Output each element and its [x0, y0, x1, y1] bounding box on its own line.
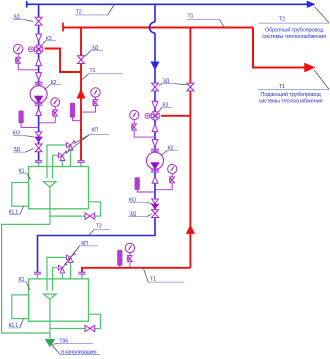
wire PI2 tap to pipe [39, 116, 56, 123]
wire K3a hot link (red) [45, 49, 81, 73]
wire PI1 tap to pipe [18, 63, 38, 70]
svg-text:Т2: Т2 [96, 224, 102, 230]
thermometer TI4 on K1b outlet header [118, 250, 123, 265]
label v kanalizaciyu [60, 350, 100, 356]
thermometer TI2 middle branch [135, 178, 140, 190]
wire T2 return main (blue, top) [27, 3, 308, 5]
stub boiler K1a outlet (green) [80, 162, 82, 167]
wire PI6 stem [129, 253, 131, 256]
wire riser2 drop (red) [189, 28, 191, 268]
cock of PI1 [16, 57, 21, 63]
flange boiler K1a outlet [77, 160, 84, 162]
label T96 [52, 338, 93, 354]
label K1.1b [9, 319, 24, 329]
module K1.1 a body [12, 183, 29, 207]
label ZD middle-bottom [129, 212, 152, 218]
pump K2b [147, 152, 164, 169]
wire boiler K1b outlet header (red) [82, 268, 190, 273]
cock of PI6 [127, 256, 132, 262]
safety valve KP2 a [58, 151, 67, 161]
manometer PI6 on K1b outlet header [125, 243, 134, 252]
check valve KO middle [152, 199, 159, 209]
wire PI3 stem [133, 120, 135, 124]
flange boiler K1a water inlet [35, 160, 42, 162]
flow arrow middle branch (down) [151, 62, 159, 70]
stub boiler K1b outlet (green) [81, 274, 83, 279]
reducer out of pump K2a (up) [36, 109, 42, 116]
svg-text:системы теплоснабжения: системы теплоснабжения [262, 34, 326, 40]
safety valve riser 2 b (green) [61, 273, 63, 280]
wire T1 exit elbow (red) [253, 28, 306, 68]
wire T2 collector to boiler K1b (blue) [38, 236, 156, 273]
wire TI4 stem [119, 265, 121, 267]
label ZD riser1 [85, 46, 103, 57]
wire left branch drop (blue) [38, 4, 40, 160]
svg-text:Т1: Т1 [187, 13, 193, 19]
3-way valve K3b with actuator [145, 112, 159, 120]
3-way valve K3a with actuator [29, 45, 43, 53]
boiler K1 a body [29, 167, 89, 209]
label KO left [13, 131, 34, 137]
wire middle branch drop (blue) [154, 33, 156, 236]
label KO middle [129, 197, 152, 203]
safety valve riser 1 b (green) [70, 263, 72, 280]
label K1b [18, 277, 30, 290]
svg-text:Т2: Т2 [279, 17, 285, 23]
stub into boiler K1a (green) [38, 162, 40, 167]
safety valve KP2 b [58, 263, 67, 273]
safety discharge pipe 1 b (green) [47, 257, 67, 290]
wire PI6 tap to pipe [129, 262, 131, 268]
label K2b [161, 145, 178, 155]
reducer out of pump K2b (up) [152, 176, 158, 183]
svg-text:Подающий трубопровод: Подающий трубопровод [260, 91, 321, 98]
svg-text:Обратный трубопровод: Обратный трубопровод [265, 26, 324, 33]
flange boiler K1b water inlet [34, 271, 41, 273]
blowdown loop a (green) [50, 202, 101, 216]
wire drain from K1a to sewer line (green) [2, 224, 50, 333]
safety discharge pipe 2 b (green) [53, 268, 59, 291]
manometer PI2 pump K2a discharge [51, 98, 60, 107]
reducer out of K3b (up) [152, 124, 158, 131]
boiler K1 b body [29, 279, 89, 321]
wire T1 supply main (red) [63, 27, 253, 29]
safety valve riser 2 a (green) [61, 160, 63, 167]
label K1a [19, 168, 31, 179]
wire manometer PI1 stem [17, 54, 19, 58]
svg-text:КП: КП [91, 128, 98, 134]
stub into boiler K1b (green) [37, 274, 39, 279]
wire PI3 tap to pipe [134, 130, 155, 137]
manometer PI3 middle branch [130, 110, 139, 119]
label ZD left-top [13, 15, 33, 22]
svg-text:Т1: Т1 [279, 84, 285, 90]
cock of PI5 [93, 100, 98, 106]
flow arrow riser1 (up) [77, 89, 85, 98]
cock of PI3 [132, 124, 137, 130]
flow arrow T96 to sewer (down) [45, 339, 54, 346]
flange pump K2a inlet [35, 81, 43, 83]
wire TI3 tap to pipe [73, 117, 82, 120]
wire PI5 stem [95, 97, 97, 100]
funnel inside K1 a [44, 182, 57, 187]
pump K2a [30, 86, 47, 103]
label T1 riser1 [82, 68, 123, 79]
label T2 collector [89, 224, 110, 236]
module K1.1 b body [12, 295, 29, 319]
cock of PI2 [53, 110, 58, 116]
label T1 K1b header [143, 268, 184, 283]
wire TI1 tap to pipe [21, 123, 38, 128]
flow arrow T2 main (right) [307, 1, 315, 8]
label K1.1a [9, 206, 24, 215]
blowdown valve a [85, 213, 95, 219]
flange pump K2b inlet [151, 148, 159, 150]
safety valve KP1 b [67, 253, 76, 263]
manometer PI1 on left branch [14, 44, 23, 53]
reducer into K3b (down) [152, 101, 158, 109]
manometer PI4 pump K2b discharge [168, 164, 177, 173]
label T1 top-mid [187, 13, 224, 27]
wire PI5 tap to pipe [81, 106, 96, 113]
flow arrow riser2 (up) [186, 225, 194, 234]
reducer into K3a (down) [36, 34, 42, 42]
thermometer TI1 left branch [19, 111, 24, 123]
blowdown loop b (green) [50, 314, 101, 328]
wire drain stem to arrow (green) [49, 333, 51, 340]
funnel drain stem b (green) [49, 299, 51, 337]
label T2 top-left [75, 5, 114, 16]
label KP bottom pair [64, 241, 98, 266]
thermometer TI3 riser1 [70, 103, 75, 117]
flow arrow T1 exit (right) [305, 63, 315, 72]
gate valve ZD middle branch [152, 83, 159, 91]
label K3b [159, 103, 173, 112]
flange pump K2a outlet [35, 102, 43, 104]
wire TI2 tap to pipe [137, 190, 155, 192]
label ZD left-bottom [13, 147, 34, 153]
wire K3b hot link (red) [161, 115, 190, 117]
label ZD middle pair [159, 79, 188, 86]
blowdown valve b [85, 325, 95, 331]
safety valve KP1 a [67, 140, 76, 150]
label KP top pair [66, 128, 109, 154]
gate valve ZD left-bottom [35, 144, 42, 152]
cock of PI4 [170, 177, 175, 183]
wire PI4 tap to pipe [155, 183, 172, 190]
wire PI2 stem [54, 107, 56, 110]
flange pump K2b outlet [151, 169, 159, 171]
pipe end tick T2 main [26, 1, 28, 8]
gate valve ZD middle-bottom [152, 210, 159, 218]
check valve KO left [35, 132, 42, 142]
pipe hop over T1 main (blue arc) [150, 22, 155, 33]
reducer into pump K2b (down) [152, 140, 158, 147]
funnel inside K1 b [44, 294, 57, 299]
gate valve ZD riser1 [78, 56, 85, 64]
flange boiler K1b hot outlet [78, 271, 85, 273]
wire riser boiler K1a outlet (red) [80, 28, 82, 161]
reducer into pump K2a (down) [36, 73, 42, 81]
safety discharge pipe 2 a (green) [53, 155, 59, 178]
safety discharge pipe 1 a (green) [47, 145, 67, 178]
manometer PI5 riser1 [91, 88, 100, 97]
wire PI4 stem [171, 174, 173, 177]
gate valve ZD riser2 [187, 83, 194, 91]
pipe end tick T1 main [62, 23, 64, 32]
gate valve ZD left-top [35, 17, 42, 25]
safety valve riser 1 a (green) [70, 150, 72, 167]
svg-text:системы теплоснабжения: системы теплоснабжения [259, 99, 323, 105]
label K3a [42, 36, 56, 45]
reducer out of K3a (up) [36, 58, 42, 65]
funnel drain stem a (green) [49, 187, 51, 225]
wire middle branch drop upper (blue) [154, 4, 156, 22]
label K2a [44, 80, 61, 90]
